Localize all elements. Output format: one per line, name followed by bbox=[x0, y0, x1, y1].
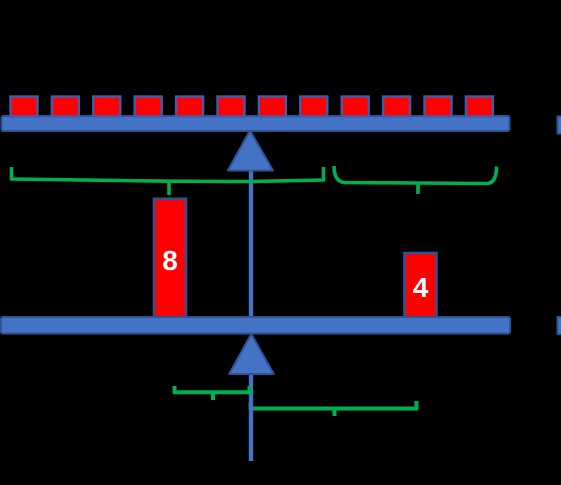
bottom fulcrum triangle bbox=[229, 334, 274, 374]
weight square 10 bbox=[383, 97, 410, 117]
block 8 bbox=[154, 199, 186, 317]
weight square 8 bbox=[300, 97, 327, 117]
left bracket tick bbox=[167, 181, 171, 195]
svg-text:4: 4 bbox=[413, 272, 429, 303]
weight square 7 bbox=[259, 97, 286, 117]
top fulcrum triangle bbox=[228, 131, 273, 171]
svg-text:8: 8 bbox=[162, 245, 178, 276]
bottom left bracket bbox=[175, 386, 250, 392]
right brace tick bbox=[416, 183, 420, 194]
bottom plumb line bbox=[249, 372, 253, 461]
bottom beam bar bbox=[1, 317, 510, 334]
block 4 bbox=[405, 253, 437, 318]
bottom right bracket tick bbox=[333, 409, 337, 417]
left bracket (top) bbox=[12, 167, 324, 182]
weight square 2 bbox=[52, 97, 79, 117]
bottom left bracket tick bbox=[211, 392, 215, 400]
weight square 3 bbox=[93, 97, 120, 117]
weight square 6 bbox=[218, 97, 245, 117]
bottom right bracket bbox=[251, 401, 417, 409]
right brace (top) bbox=[334, 166, 497, 184]
weight square 11 bbox=[425, 97, 452, 117]
top beam bar bbox=[2, 116, 510, 131]
weight square 9 bbox=[342, 97, 369, 117]
weight square 4 bbox=[135, 97, 162, 117]
top plumb line bbox=[249, 168, 253, 317]
weight square 1 bbox=[11, 97, 38, 117]
right edge fragment top bbox=[558, 117, 561, 134]
right edge fragment bottom bbox=[558, 317, 561, 334]
weight square 12 bbox=[466, 97, 493, 117]
weight square 5 bbox=[176, 97, 203, 117]
